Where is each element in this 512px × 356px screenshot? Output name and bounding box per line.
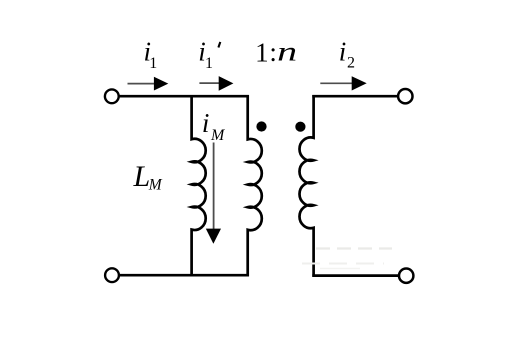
svg-text:M: M: [148, 177, 163, 194]
polarity dot secondary: [295, 122, 305, 132]
current arrow i2 head: [352, 76, 367, 90]
transformer primary winding with wires: [248, 95, 262, 276]
inductor LM (magnetizing branch) with wires: [192, 95, 206, 276]
svg-text:n: n: [277, 37, 297, 67]
wire: bottom right horizontal: [312, 274, 399, 277]
current arrow i1' shaft: [199, 82, 221, 84]
svg-text:L: L: [133, 160, 151, 193]
transformer secondary winding with wires: [299, 95, 313, 277]
terminal circle top-left: [105, 89, 119, 103]
svg-text:i: i: [202, 108, 210, 138]
svg-text:1: 1: [149, 55, 157, 72]
svg-text:1: 1: [205, 55, 213, 72]
current arrow iM shaft: [213, 143, 215, 231]
current arrow i1 head: [154, 77, 168, 91]
current arrow i2 shaft: [320, 82, 354, 84]
wire: top left horizontal: [119, 95, 249, 98]
terminal circle bottom-right: [399, 269, 413, 283]
svg-text:1: 1: [255, 37, 269, 67]
current arrow iM head: [206, 229, 221, 244]
terminal circle bottom-left: [105, 268, 119, 282]
polarity dot primary: [256, 121, 266, 131]
svg-text:2: 2: [347, 54, 355, 71]
current arrow i1' head: [219, 76, 234, 91]
faint erased-content artifacts above bottom-right wire: [316, 247, 392, 249]
terminal circle top-right: [398, 89, 412, 103]
current arrow i1 shaft: [128, 83, 157, 85]
svg-text:M: M: [210, 127, 226, 144]
svg-text:i: i: [339, 36, 347, 66]
wire: bottom left horizontal: [119, 274, 249, 277]
svg-text::: :: [269, 37, 277, 67]
wire: top right horizontal: [312, 95, 398, 98]
